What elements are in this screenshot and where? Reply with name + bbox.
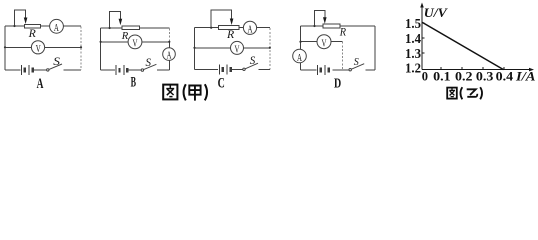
battery A [21,65,32,75]
wire bottom A [5,69,81,71]
node middle-left A [4,46,6,48]
glyph 图 (caption jia) [163,85,177,100]
ammeter A (circuit C) [243,21,256,34]
svg-text:A: A [54,22,59,34]
wire middle B [101,41,170,43]
voltmeter V (circuit D) [317,35,331,49]
svg-text:V: V [235,44,240,56]
glyph ) (caption yi) [480,87,482,99]
voltmeter V (circuit B) [128,35,142,49]
ammeter A (circuit B, right rail) [163,48,176,61]
node middle-right A [80,46,82,48]
svg-text:1.4: 1.4 [405,32,421,47]
node middle-left C [193,47,195,49]
svg-text:S: S [146,56,152,69]
ammeter A (circuit D, left rail) [293,49,307,63]
node middle-left B [100,41,102,43]
glyph ( (caption jia) [184,84,186,100]
switch S (circuit A) [47,64,62,71]
wire bottom C [195,68,270,70]
svg-text:0.3: 0.3 [476,70,494,84]
svg-text:0: 0 [422,70,428,84]
svg-text:V: V [133,38,138,50]
svg-text:0.2: 0.2 [455,70,473,84]
battery B [116,65,127,75]
wire bottom D [301,69,375,71]
svg-text:0.1: 0.1 [433,70,451,84]
svg-text:S: S [354,56,359,68]
svg-text:I/A: I/A [515,69,536,84]
svg-text:R: R [121,30,129,42]
svg-text:R: R [28,26,37,40]
glyph ( (caption yi) [460,87,462,99]
wire top D [301,25,375,27]
svg-text:D: D [334,77,341,92]
wire right rail D [374,26,376,70]
x-axis [422,69,531,71]
battery C [219,64,230,74]
node middle-left D [299,41,301,43]
svg-text:S: S [53,56,60,68]
switch S (circuit D) [349,64,364,71]
plotted U-I line [422,22,503,69]
glyph 乙 (caption yi) [467,89,478,97]
wire right rail B (dashed top part) [168,29,170,42]
svg-text:U/V: U/V [424,5,448,20]
svg-text:A: A [167,51,172,62]
node middle-right C [269,47,271,49]
svg-text:S: S [250,55,256,67]
x ticks [441,67,504,70]
svg-text:V: V [36,43,41,55]
wire left rail A [4,26,6,70]
y-axis [421,5,423,70]
wire top A [5,25,81,27]
wire middle C [195,47,270,49]
svg-text:R: R [339,25,347,39]
node middle-right B [168,41,170,43]
svg-text:A: A [297,52,302,64]
svg-text:1.5: 1.5 [405,17,421,32]
glyph ) (caption jia) [205,84,207,100]
wire left rail D [300,26,302,70]
svg-text:B: B [131,74,137,90]
svg-text:1.3: 1.3 [405,47,421,62]
wire left rail C [194,28,196,70]
switch S (circuit C) [243,63,258,70]
rheostat R (slider) D [315,11,341,28]
voltmeter V (circuit C) [231,41,244,54]
svg-text:0.4: 0.4 [496,70,514,84]
wire top B [101,27,170,29]
rheostat R (slider) C [211,10,239,29]
svg-text:V: V [322,37,327,49]
voltmeter V (circuit A) [31,41,44,54]
wire middle D (to V) [301,41,343,43]
battery D [317,65,328,75]
rheostat R (slider) A [15,10,41,28]
wire right rail A (faint dashed) [80,27,82,71]
wire left rail B [100,28,102,70]
wire middle A [5,46,81,48]
wire vertical dashed D [342,42,344,70]
wire top C [195,27,270,29]
svg-text:C: C [218,76,225,92]
wire right rail C (faint dashed) [269,28,271,69]
wire bottom B [101,69,170,71]
ammeter A1 (circuit A) [50,19,64,33]
glyph 图 (caption yi) [447,88,457,99]
glyph 甲 (caption jia) [189,86,200,101]
switch S (circuit B) [141,64,156,71]
svg-text:A: A [37,76,44,92]
y ticks [422,23,425,53]
svg-text:R: R [226,27,235,41]
svg-text:A: A [248,23,253,35]
svg-text:1.2: 1.2 [405,61,421,76]
rheostat R (slider) B [110,12,140,30]
